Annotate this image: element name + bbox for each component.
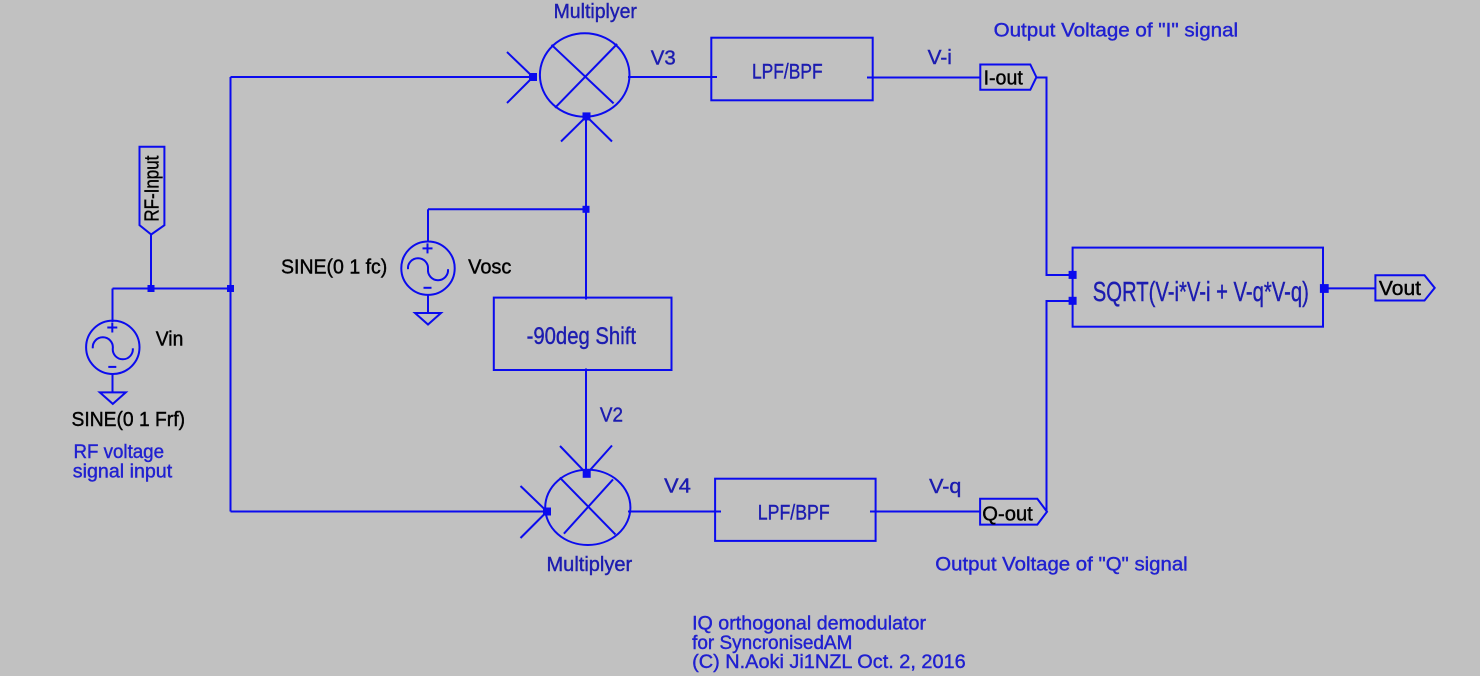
wire mult2 output to LPF2 bbox=[628, 511, 721, 513]
pin square U1 left input bbox=[529, 73, 537, 81]
pin square U2 left input bbox=[543, 508, 551, 516]
svg-text:(C) N.Aoki Ji1NZL Oct. 2, 2016: (C) N.Aoki Ji1NZL Oct. 2, 2016 bbox=[692, 651, 966, 673]
flag RF-Input bbox=[140, 147, 165, 235]
svg-text:-90deg Shift: -90deg Shift bbox=[527, 323, 637, 350]
pin square U1 bottom input bbox=[583, 112, 591, 120]
svg-text:Vosc: Vosc bbox=[468, 257, 511, 279]
svg-text:SINE(0 1 fc): SINE(0 1 fc) bbox=[281, 257, 387, 279]
wire SQRT output to Vout tag bbox=[1324, 287, 1375, 289]
pin square SQRT output bbox=[1320, 284, 1329, 293]
ground of Vin bbox=[100, 392, 126, 404]
svg-text:V3: V3 bbox=[651, 47, 676, 69]
box -90deg Shift (U5) bbox=[494, 298, 672, 370]
svg-text:Output Voltage of "I" signal: Output Voltage of "I" signal bbox=[994, 20, 1239, 42]
svg-text:LPF/BPF: LPF/BPF bbox=[752, 61, 823, 84]
wire long vertical left rail bbox=[230, 77, 232, 512]
wire Vin top stub bbox=[112, 289, 114, 323]
arrow bottom input bbox=[561, 116, 587, 141]
wire I-out tag to corner bbox=[1036, 78, 1072, 276]
svg-text:Output Voltage of "Q" signal: Output Voltage of "Q" signal bbox=[935, 554, 1187, 576]
wire main vertical mult1 to shift box bbox=[585, 117, 587, 300]
svg-text:Multiplyer: Multiplyer bbox=[547, 554, 633, 576]
svg-text:Vin: Vin bbox=[156, 329, 184, 351]
wire LPF1 to I-out tag bbox=[867, 77, 980, 79]
wire Q-out vertical to SQRT bbox=[1047, 301, 1073, 512]
port tag Q-out bbox=[980, 499, 1047, 526]
svg-text:SQRT(V-i*V-i + V-q*V-q): SQRT(V-i*V-i + V-q*V-q) bbox=[1093, 276, 1309, 307]
svg-text:Multiplyer: Multiplyer bbox=[554, 1, 638, 23]
svg-text:I-out: I-out bbox=[984, 68, 1024, 90]
svg-text:V4: V4 bbox=[664, 475, 691, 497]
arrow left input bbox=[521, 486, 548, 512]
wire RF flag stub bbox=[150, 235, 152, 289]
svg-text:Q-out: Q-out bbox=[982, 504, 1033, 526]
svg-text:V-i: V-i bbox=[928, 47, 952, 69]
svg-text:Vout: Vout bbox=[1379, 278, 1422, 300]
junction at left rail bbox=[227, 285, 234, 292]
svg-text:V-q: V-q bbox=[929, 476, 961, 498]
arrow left input bbox=[507, 52, 533, 77]
junction at Vosc tap bbox=[583, 206, 590, 213]
box LPF/BPF bottom (U4) bbox=[715, 479, 876, 541]
wire top-left horizontal rail bbox=[231, 76, 534, 78]
wire Vosc top stub bbox=[427, 209, 429, 242]
wire LPF2 to Q-out tag bbox=[870, 511, 980, 513]
voltage source Vin bbox=[86, 321, 139, 374]
pin square U2 top input bbox=[583, 470, 591, 478]
multiplier U1 top: circle with X bbox=[507, 33, 630, 141]
multiplier U2 bottom: circle with X bbox=[521, 446, 631, 546]
svg-text:signal input: signal input bbox=[73, 460, 173, 482]
wire Vin bottom stub bbox=[112, 374, 114, 393]
wire shift box to mult2 bbox=[585, 369, 587, 474]
port tag Vout bbox=[1375, 275, 1434, 300]
svg-text:SINE(0 1 Frf): SINE(0 1 Frf) bbox=[72, 409, 186, 431]
wire Vosc bottom stub bbox=[427, 295, 429, 314]
wire mult1 output to LPF1 bbox=[628, 76, 717, 78]
wire Vosc to main vertical bbox=[428, 208, 586, 210]
wire bottom-left horizontal rail bbox=[231, 511, 548, 513]
ground of Vosc bbox=[415, 313, 441, 325]
wire RF input horizontal bbox=[113, 288, 231, 290]
svg-text:RF-Input: RF-Input bbox=[142, 155, 164, 221]
arrow top input bbox=[560, 446, 587, 474]
box SQRT (U6) bbox=[1073, 248, 1323, 327]
pin square SQRT input V-q bbox=[1069, 297, 1077, 305]
svg-text:LPF/BPF: LPF/BPF bbox=[758, 501, 830, 524]
voltage source Vosc bbox=[401, 242, 454, 295]
junction at RF-Input flag bbox=[148, 285, 155, 292]
port tag I-out bbox=[980, 65, 1036, 90]
svg-text:V2: V2 bbox=[600, 404, 623, 426]
pin square SQRT input V-i bbox=[1069, 271, 1077, 279]
box LPF/BPF top (U3) bbox=[711, 38, 872, 101]
